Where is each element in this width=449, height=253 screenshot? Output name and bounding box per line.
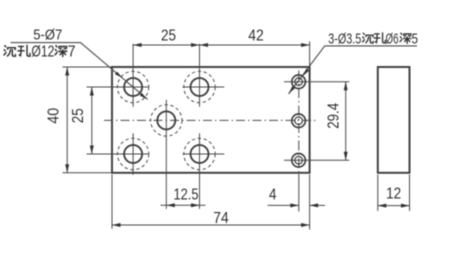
note text 3-Ø3.5沉孔Ø6深5 [328,31,418,48]
svg-text:12: 12 [386,186,401,203]
note text 沉孔Ø12深7 [4,44,76,61]
svg-text:40: 40 [46,108,63,124]
svg-text:42: 42 [248,28,264,45]
svg-text:Ø12: Ø12 [31,44,54,61]
centerline small hole column vertical [298,71,300,175]
arrow 25 left [133,43,142,47]
svg-text:5-Ø7: 5-Ø7 [33,27,62,44]
bottom dimension 12.5 [161,204,206,206]
centerline middle horizontal [104,119,318,121]
hole H3 center [151,105,182,136]
centerline column H4/H5 vertical [133,133,199,209]
arrow 25 right [191,43,200,47]
left dimension 40 [63,67,112,173]
centerline row y=87 (top hole row) [87,86,225,88]
leader 5-Ø7 shelf [11,43,148,100]
svg-text:7: 7 [68,44,76,61]
svg-text:12.5: 12.5 [174,187,199,204]
centerline row y=154 (bottom hole row) [87,153,225,155]
right dimension 29.4 [345,82,347,161]
left dimension 25 (rows) [91,87,93,154]
svg-text:4: 4 [269,187,277,204]
small hole S3 [292,153,306,167]
bottom dimension 74 [112,175,310,230]
svg-text:25: 25 [161,28,176,45]
arrow 42 left [200,43,209,47]
hole H4 bottom-left [117,138,148,169]
svg-text:3-Ø3.5: 3-Ø3.5 [328,31,361,48]
leader arrow at end (lower-right) [140,93,148,99]
hole H1 top-left (Ø7 cb Ø12) [117,71,148,102]
svg-text:29.4: 29.4 [326,103,343,129]
svg-text:Ø6: Ø6 [386,31,399,48]
side view outline [378,67,410,173]
plate outline (front view) [112,67,310,173]
hole H5 bottom-right [184,138,215,169]
small hole S1 (Ø3.5 cb Ø6) [292,75,306,89]
arrow 42 right [301,43,310,47]
leader arrow at end (lower-left) [289,86,296,94]
leader arrow on cb circle (upper-right) [303,69,310,77]
svg-text:25: 25 [70,108,87,123]
bottom dimension 4 [268,204,326,206]
svg-text:74: 74 [213,210,229,227]
svg-text:5: 5 [412,31,419,48]
side dimension 12 [378,175,410,211]
leader 3-Ø3.5 shelf [289,46,418,94]
hole H2 top-right [184,71,215,102]
top dimension 25 / 42 [133,42,310,67]
leader arrow on counterbore circle (upper-left) [115,72,123,78]
centerline column H3 vertical [165,100,167,209]
centerline small hole rows [284,82,349,161]
small hole S2 [292,114,306,128]
centerline column H1/H2 vertical [133,44,199,107]
